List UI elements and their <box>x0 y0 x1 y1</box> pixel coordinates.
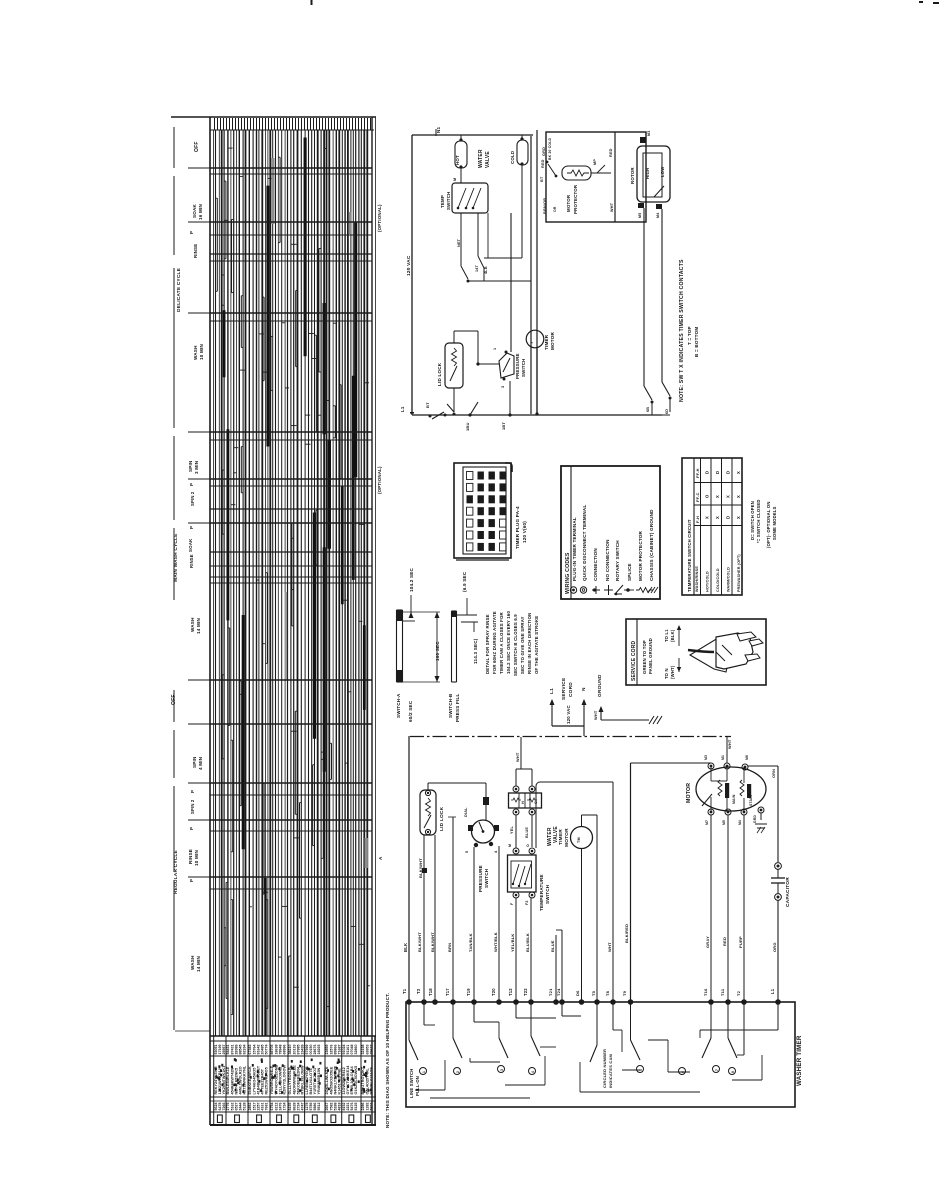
svg-text:HOT: HOT <box>455 155 460 165</box>
svg-text:MAIN: MAIN <box>732 794 736 804</box>
svg-text:M6: M6 <box>745 755 749 760</box>
wire T2 PURP <box>736 815 744 1002</box>
svg-text:T: T <box>529 341 534 344</box>
svg-text:(BLK): (BLK) <box>670 629 675 642</box>
svg-text:D: D <box>715 471 720 474</box>
svg-text:X: X <box>736 471 741 474</box>
svg-text:P: P <box>190 790 195 793</box>
svg-text:TIMER PLUG PA-4: TIMER PLUG PA-4 <box>515 506 520 549</box>
water valve COLD solenoid <box>510 135 528 258</box>
svg-text:PRESSURE: PRESSURE <box>515 353 520 379</box>
cam B timing bar <box>452 611 457 682</box>
svg-text:SWITCH: SWITCH <box>545 884 550 904</box>
svg-text:SWITCH-B: SWITCH-B <box>448 693 453 718</box>
svg-text:T12: T12 <box>508 988 513 996</box>
svg-text:FF-H: FF-H <box>695 468 700 478</box>
chart legend table cell text <box>214 1045 374 1123</box>
svg-text:OFF: OFF <box>171 694 177 705</box>
svg-text:4LB: 4LB <box>484 266 488 274</box>
svg-text:14 MIN: 14 MIN <box>196 956 201 972</box>
svg-text:GREEN TO TOP: GREEN TO TOP <box>642 640 647 674</box>
svg-text:5512: 5512 <box>317 1103 321 1111</box>
svg-text:BRN: BRN <box>447 943 452 952</box>
svg-text:LOW: LOW <box>660 167 665 177</box>
svg-text:BLK/RED: BLK/RED <box>624 924 629 943</box>
svg-text:T22: T22 <box>523 988 528 996</box>
chart legend table <box>210 1036 376 1125</box>
wire T16 GRAY <box>703 815 711 1002</box>
neutral dash-dot rail <box>410 736 731 738</box>
service cord plug drawing <box>688 632 763 672</box>
svg-text:COLD/COLD: COLD/COLD <box>716 568 720 592</box>
wiring codes legend entries <box>570 505 658 596</box>
svg-text:PRESS FILL: PRESS FILL <box>455 693 460 722</box>
svg-text:BT: BT <box>540 176 544 182</box>
svg-text:GRD: GRD <box>753 815 757 823</box>
left rail BLK T1 <box>402 736 409 1002</box>
svg-text:BLK/WHT: BLK/WHT <box>430 932 435 952</box>
svg-text:D: D <box>726 516 731 519</box>
svg-text:4 MIN: 4 MIN <box>198 756 203 770</box>
svg-text:4818: 4818 <box>338 1103 342 1111</box>
svg-text:RED: RED <box>609 148 613 157</box>
svg-text:YEL: YEL <box>510 826 514 834</box>
svg-text:O: O <box>526 844 530 847</box>
svg-text:GRAY: GRAY <box>705 936 710 948</box>
capacitor <box>771 863 791 907</box>
svg-text:SPLICE: SPLICE <box>627 563 632 581</box>
chart right side notes <box>377 204 383 860</box>
timer plug terminals <box>467 472 506 551</box>
wire N rail vertical <box>531 130 537 414</box>
svg-text:TAN/BLK: TAN/BLK <box>468 933 473 952</box>
svg-text:N: N <box>581 687 587 691</box>
spray rinse detail note <box>485 611 539 676</box>
svg-text:T8: T8 <box>605 990 610 996</box>
svg-text:BLK: BLK <box>403 943 408 952</box>
svg-text:68996: 68996 <box>283 1045 287 1055</box>
svg-text:LID LOCK: LID LOCK <box>437 362 442 386</box>
timer chart frame <box>171 117 376 1125</box>
svg-text:MOTOR PROTECTOR: MOTOR PROTECTOR <box>638 530 643 581</box>
svg-text:BLK/WHT: BLK/WHT <box>418 858 423 878</box>
svg-text:WHT: WHT <box>607 942 612 952</box>
svg-text:DETAIL FOR SPRAY RINSE: DETAIL FOR SPRAY RINSE <box>485 614 490 674</box>
wire T22 BLU/BLK <box>523 898 531 1002</box>
chart cycle labels <box>171 141 204 972</box>
switch B label <box>448 693 460 722</box>
svg-text:TEMPERATURE: TEMPERATURE <box>539 874 544 911</box>
svg-text:YEL/BLK: YEL/BLK <box>510 933 515 952</box>
note timer switch contacts <box>679 259 699 402</box>
svg-text:SEC TO GIVE ONE SPRAY: SEC TO GIVE ONE SPRAY <box>520 616 525 674</box>
svg-text:2: 2 <box>456 1071 460 1073</box>
svg-text:NOTE: SW T X INDICATES TIMER S: NOTE: SW T X INDICATES TIMER SWITCH CONT… <box>679 259 685 402</box>
svg-text:6B: 6B <box>646 407 650 412</box>
svg-text:SERVICE: SERVICE <box>561 677 567 700</box>
switch A label <box>396 693 413 722</box>
svg-text:T16: T16 <box>703 988 708 996</box>
bottom rail L1 top schematic <box>400 402 662 431</box>
timer internal contacts <box>409 1002 778 1098</box>
water valve HOT solenoid <box>455 135 467 183</box>
svg-text:SPIN: SPIN <box>188 460 193 472</box>
svg-text:SWITCH: SWITCH <box>446 191 451 210</box>
svg-text:18265: 18265 <box>317 1045 321 1055</box>
svg-text:ORN: ORN <box>772 769 776 778</box>
wire T19 TAN/BLK <box>466 847 474 1002</box>
svg-text:M3: M3 <box>704 755 708 760</box>
svg-text:T9: T9 <box>622 990 627 996</box>
wire T8 riser WHT <box>605 782 613 1002</box>
svg-text:H: H <box>521 801 525 804</box>
svg-text:GROUND: GROUND <box>597 674 603 697</box>
svg-text:BLUE: BLUE <box>550 940 555 952</box>
svg-text:WASH: WASH <box>193 345 198 360</box>
motor protector <box>546 159 611 214</box>
svg-text:X: X <box>726 495 731 498</box>
svg-text:MOTOR: MOTOR <box>566 194 571 212</box>
scan mark top <box>311 0 313 5</box>
svg-text:5125: 5125 <box>354 1103 358 1111</box>
svg-text:RED: RED <box>541 159 545 168</box>
svg-text:LINE SWITCH: LINE SWITCH <box>409 1069 414 1098</box>
wiring codes legend box <box>561 466 660 599</box>
svg-text:32860: 32860 <box>354 1045 358 1055</box>
motor circuit wire labels <box>540 137 614 214</box>
wire T21 T24 BLUE <box>548 782 562 1002</box>
svg-text:L1: L1 <box>770 988 775 994</box>
svg-text:O1K2OL5OWK5: O1K2OL5OWK5 <box>354 1066 358 1095</box>
svg-text:ORG: ORG <box>772 942 777 952</box>
svg-text:7: 7 <box>715 1069 719 1071</box>
svg-text:D: D <box>705 471 710 474</box>
svg-text:160 SEC: 160 SEC <box>435 641 440 661</box>
svg-text:VALVE: VALVE <box>485 151 491 168</box>
svg-text:M4: M4 <box>738 820 742 825</box>
wire T20 WHT/BLK <box>491 846 499 1002</box>
svg-text:NET: NET <box>457 238 461 247</box>
svg-text:T19: T19 <box>466 988 471 996</box>
svg-text:YR4K5N5B15N: YR4K5N5B15N <box>317 1067 321 1094</box>
svg-text:50774: 50774 <box>265 1045 269 1055</box>
svg-text:RE251WR24O5: RE251WR24O5 <box>265 1067 269 1094</box>
svg-text:K2T2WRKKYNL: K2T2WRKKYNL <box>243 1065 247 1094</box>
svg-text:DIAL: DIAL <box>464 807 468 817</box>
lid lock bottom <box>420 790 445 835</box>
svg-text:SWITCH-A: SWITCH-A <box>396 693 401 718</box>
washer timer terminals <box>406 999 781 1005</box>
svg-text:120 VAC: 120 VAC <box>406 255 412 276</box>
svg-text:TEMP: TEMP <box>440 195 445 208</box>
svg-text:M: M <box>453 178 457 181</box>
svg-text:CIRCLED NUMBER: CIRCLED NUMBER <box>602 1049 607 1088</box>
service entry L1 N ground arrows <box>549 674 662 736</box>
wire WHT to motor <box>727 737 732 763</box>
water valve label top <box>478 149 491 168</box>
wire temp switch O to T8 riser <box>536 782 613 848</box>
svg-text:120 V(60): 120 V(60) <box>522 521 527 543</box>
service cord box <box>626 619 766 685</box>
svg-text:M: M <box>508 844 512 847</box>
wire rotor to timer contacts <box>644 208 672 415</box>
svg-text:WHT: WHT <box>610 202 614 212</box>
washer timer box <box>406 1002 803 1107</box>
svg-text:MP: MP <box>593 159 597 165</box>
svg-text:MOTOR: MOTOR <box>564 828 570 847</box>
svg-text:1BU: 1BU <box>465 422 470 431</box>
svg-text:PROTECTOR: PROTECTOR <box>573 184 578 214</box>
svg-text:TM: TM <box>577 837 581 843</box>
svg-text:L1: L1 <box>400 406 405 412</box>
svg-text:WATER: WATER <box>478 149 484 168</box>
svg-text:SOME MODELS: SOME MODELS <box>772 506 777 540</box>
svg-text:8: 8 <box>731 1071 735 1073</box>
svg-text:MOTOR: MOTOR <box>550 332 555 350</box>
svg-text:GRD: GRD <box>542 147 546 156</box>
svg-text:D6: D6 <box>575 990 580 996</box>
svg-text:5128: 5128 <box>243 1103 247 1111</box>
svg-text:T20: T20 <box>491 988 496 996</box>
svg-text:N1: N1 <box>436 126 441 133</box>
svg-text:A: A <box>378 856 383 860</box>
svg-text:HIGH: HIGH <box>645 168 650 179</box>
wire junction to rail <box>468 213 531 281</box>
svg-text:O: O <box>705 494 710 498</box>
svg-text:CAPACITOR: CAPACITOR <box>785 877 791 907</box>
svg-text:PANEL GROUND: PANEL GROUND <box>648 638 653 674</box>
wire ORN right rail L1 <box>748 766 778 1002</box>
dim 6.9 sec <box>457 571 479 664</box>
svg-text:114.3 SEC): 114.3 SEC) <box>473 638 478 664</box>
svg-text:DELICATE CYCLE: DELICATE CYCLE <box>176 267 182 312</box>
svg-text:SWITCH: SWITCH <box>484 868 489 888</box>
timer chart cam trace lines <box>216 130 370 1036</box>
svg-text:CONNECTION: CONNECTION <box>593 548 598 581</box>
svg-text:TIMER CAM A CLOSES FOR: TIMER CAM A CLOSES FOR <box>499 611 504 674</box>
svg-text:(6.9 SEC: (6.9 SEC <box>462 571 467 592</box>
svg-text:F-H: F-H <box>695 516 700 523</box>
svg-text:PURP: PURP <box>738 936 743 948</box>
svg-text:M1: M1 <box>721 755 725 760</box>
table headers and values <box>695 468 741 592</box>
svg-text:SPIN: SPIN <box>192 756 197 768</box>
wire T3 lid lock <box>416 835 427 1002</box>
svg-text:WARM/COLD: WARM/COLD <box>727 567 731 592</box>
svg-text:PULL-ON: PULL-ON <box>415 1076 420 1096</box>
svg-text:CORD: CORD <box>568 682 574 697</box>
svg-text:3 MIN: 3 MIN <box>194 460 199 474</box>
wire T12 YEL/BLK <box>508 898 516 1002</box>
svg-text:TIMER: TIMER <box>558 829 564 845</box>
timer chart cycle divider lines <box>175 168 372 1031</box>
svg-text:OF THE AGITATE STROKE: OF THE AGITATE STROKE <box>534 616 539 674</box>
svg-text:NO CONNECTION: NO CONNECTION <box>605 539 610 581</box>
svg-text:6D: 6D <box>665 409 669 414</box>
dim 160 sec <box>403 612 441 682</box>
svg-text:T21: T21 <box>548 988 553 996</box>
svg-text:D: D <box>726 471 731 474</box>
svg-text:*= SWITCH CLOSED: *= SWITCH CLOSED <box>756 499 761 543</box>
svg-text:BK 20 COLD: BK 20 COLD <box>548 137 552 160</box>
svg-text:71687: 71687 <box>338 1045 342 1055</box>
wire YEL valve to temp switch <box>510 815 516 848</box>
svg-text:M5: M5 <box>722 820 726 825</box>
svg-text:M5: M5 <box>638 213 642 218</box>
scan marks top right <box>919 1 923 3</box>
svg-text:MOTOR: MOTOR <box>686 783 692 803</box>
svg-text:1BT: 1BT <box>501 421 506 430</box>
pressure switch bottom <box>464 807 499 892</box>
svg-text:(OPTIONAL): (OPTIONAL) <box>377 466 382 494</box>
svg-text:REGULAR CYCLE: REGULAR CYCLE <box>173 849 179 894</box>
svg-text:14 MIN: 14 MIN <box>196 618 201 634</box>
svg-text:BLU/BLK: BLU/BLK <box>525 933 530 952</box>
svg-text:X: X <box>736 495 741 498</box>
svg-text:P: P <box>189 526 194 529</box>
svg-text:7681: 7681 <box>265 1103 269 1111</box>
svg-text:WASHER TIMER: WASHER TIMER <box>796 1035 803 1086</box>
wire lid lock top to pressure switch <box>428 783 489 820</box>
svg-text:BRN/OR: BRN/OR <box>543 198 547 214</box>
temperature selector switch top <box>440 178 488 213</box>
svg-text:(OPT)- OPTIONAL ON: (OPT)- OPTIONAL ON <box>766 501 771 548</box>
svg-text:1724: 1724 <box>283 1103 287 1111</box>
svg-text:COLD: COLD <box>510 151 515 164</box>
svg-text:PRESSURE: PRESSURE <box>478 865 483 892</box>
svg-text:M4: M4 <box>656 213 660 218</box>
svg-text:OFF: OFF <box>194 141 200 152</box>
svg-text:RINSE: RINSE <box>188 849 193 864</box>
svg-text:WIRING CODES: WIRING CODES <box>565 552 571 594</box>
svg-text:3: 3 <box>500 1069 504 1071</box>
svg-text:T5: T5 <box>591 990 596 996</box>
svg-text:X: X <box>715 516 720 519</box>
svg-text:10 MIN: 10 MIN <box>194 850 199 866</box>
table footnotes <box>750 499 777 548</box>
svg-text:5874: 5874 <box>369 1103 373 1111</box>
svg-text:P: P <box>189 483 194 486</box>
svg-text:K2NYY2LOOOW: K2NYY2LOOOW <box>283 1065 287 1095</box>
svg-text:SPIN 2: SPIN 2 <box>190 799 195 814</box>
timer chart header ticks <box>215 118 371 130</box>
svg-text:X: X <box>736 516 741 519</box>
svg-text:SEC SWITCH B CLOSES 6.9: SEC SWITCH B CLOSES 6.9 <box>513 614 518 676</box>
svg-text:ROTARY SWITCH: ROTARY SWITCH <box>615 540 620 581</box>
svg-text:5: 5 <box>465 851 469 853</box>
svg-text:4: 4 <box>531 1071 535 1073</box>
svg-text:CHASSIS (CABINET) GROUND: CHASSIS (CABINET) GROUND <box>649 509 654 581</box>
wire L1 rail 120 VAC <box>406 126 533 415</box>
svg-text:BLK/WHT: BLK/WHT <box>417 932 422 952</box>
service cord notes <box>642 625 681 679</box>
svg-text:WASH: WASH <box>190 955 195 970</box>
svg-text:60/2 SEC: 60/2 SEC <box>408 700 413 722</box>
svg-text:RINSE: RINSE <box>193 244 198 258</box>
svg-text:P: P <box>189 879 194 882</box>
svg-text:16 MIN: 16 MIN <box>198 204 203 220</box>
svg-text:MAIN WASH CYCLE: MAIN WASH CYCLE <box>173 533 179 582</box>
svg-text:TIMER: TIMER <box>544 334 549 350</box>
svg-text:1: 1 <box>422 1071 426 1073</box>
svg-text:10 MIN: 10 MIN <box>199 344 204 360</box>
svg-text:FF-C: FF-C <box>695 492 700 502</box>
svg-text:WASH/RINSE: WASH/RINSE <box>695 566 699 592</box>
wire BLUE valve to temp switch <box>525 815 532 847</box>
timer chart gray bars <box>272 158 368 868</box>
motor ground <box>753 813 767 833</box>
svg-text:T1: T1 <box>402 988 407 994</box>
temperature switch circuit table <box>682 458 742 595</box>
svg-text:NOTE: THIS DIAG SHOWN AS OF 10: NOTE: THIS DIAG SHOWN AS OF 10 HELPING P… <box>385 993 390 1128</box>
svg-text:SPIN 2: SPIN 2 <box>190 491 195 506</box>
temperature switch bottom <box>508 844 551 911</box>
svg-text:P: P <box>189 231 194 234</box>
svg-text:X: X <box>705 516 710 519</box>
svg-text:T11: T11 <box>720 988 725 996</box>
svg-text:F2: F2 <box>525 900 529 905</box>
svg-text:WHT: WHT <box>593 710 598 720</box>
svg-text:HOT/COLD: HOT/COLD <box>706 571 710 592</box>
svg-text:D= SWITCH OPEN: D= SWITCH OPEN <box>750 501 755 540</box>
svg-text:104.2 SEC: 104.2 SEC <box>409 568 414 592</box>
svg-text:14T: 14T <box>475 264 479 272</box>
svg-text:M3: M3 <box>647 131 651 136</box>
svg-text:T18: T18 <box>428 988 433 996</box>
timer plug connector <box>454 463 512 560</box>
wire T9 BLK/RED motor loop left rail <box>622 763 711 1002</box>
svg-text:M7: M7 <box>705 820 709 825</box>
wire T11 RED <box>720 815 728 1002</box>
svg-text:104.2 SEC ONCE EVERY 160: 104.2 SEC ONCE EVERY 160 <box>506 611 511 674</box>
svg-text:SERVICE CORD: SERVICE CORD <box>631 640 637 681</box>
svg-text:RINSE: RINSE <box>189 554 194 568</box>
svg-text:OR: OR <box>553 206 557 212</box>
svg-text:WHT/BLK: WHT/BLK <box>493 932 498 952</box>
wire hot contact 14T <box>457 213 479 283</box>
svg-text:X: X <box>715 495 720 498</box>
svg-text:RED: RED <box>722 937 727 946</box>
svg-text:RINSE IN EACH DIRECTION: RINSE IN EACH DIRECTION <box>527 613 532 674</box>
svg-text:120 VAC: 120 VAC <box>566 704 571 724</box>
svg-text:BLUE: BLUE <box>525 827 529 838</box>
svg-text:TO L1: TO L1 <box>664 629 669 642</box>
svg-text:QUICK DISCONNECT TERMINAL: QUICK DISCONNECT TERMINAL <box>582 505 587 581</box>
svg-text:TEMPERATURE SWITCH CIRCUIT: TEMPERATURE SWITCH CIRCUIT <box>687 519 692 592</box>
motor bottom <box>686 755 766 825</box>
wire T18 <box>428 835 435 1002</box>
svg-text:1: 1 <box>493 348 497 350</box>
svg-text:INDICATES CAM: INDICATES CAM <box>608 1053 613 1088</box>
svg-text:SOAK: SOAK <box>188 538 193 552</box>
chart left bracket lines <box>173 127 175 1030</box>
svg-text:P: P <box>189 827 194 830</box>
svg-text:3: 3 <box>501 386 505 388</box>
svg-text:(WHT): (WHT) <box>670 665 675 679</box>
svg-text:FOR 60HZ DURING AGITATE: FOR 60HZ DURING AGITATE <box>492 611 497 674</box>
svg-text:WHT: WHT <box>727 739 732 749</box>
svg-text:TO N: TO N <box>664 668 669 679</box>
motor circuit box top right <box>546 132 646 222</box>
svg-text:START: START <box>749 793 753 806</box>
svg-text:ROTOR: ROTOR <box>630 167 635 184</box>
lid lock top <box>437 331 478 416</box>
svg-text:79627: 79627 <box>369 1045 373 1055</box>
cam A timing bar <box>397 610 416 682</box>
wire cold contact 4LB <box>478 213 488 281</box>
dim 104.2 sec <box>409 568 415 618</box>
svg-text:T2: T2 <box>736 990 741 996</box>
